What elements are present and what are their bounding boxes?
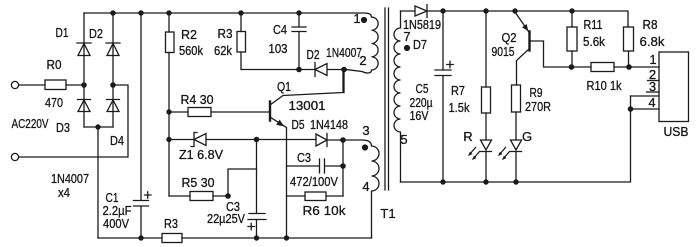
- svg-text:R3: R3: [218, 26, 233, 41]
- svg-text:R11: R11: [584, 17, 603, 32]
- resistor R4 30: [169, 108, 269, 117]
- transformer T1 secondary winding 7-5: [394, 11, 401, 182]
- wire pin1: [629, 66, 659, 68]
- svg-text:G: G: [522, 129, 532, 144]
- svg-text:R7: R7: [451, 83, 465, 98]
- resistor R11 5.6k: [567, 11, 577, 67]
- node top rail D2: [110, 10, 115, 15]
- svg-text:D2: D2: [89, 26, 103, 41]
- resistor R2 560k: [166, 13, 175, 53]
- node pin7 phase dot: [404, 45, 410, 51]
- diode D1: [77, 43, 91, 56]
- resistor R10 1k: [572, 63, 630, 72]
- node bottom rail emitter: [284, 235, 289, 240]
- diode D5 1N4148: [316, 134, 343, 147]
- wire bridge negative down: [97, 127, 99, 238]
- wire R2 column down: [168, 53, 170, 197]
- diode D3: [78, 100, 91, 112]
- node top rail C4: [296, 10, 301, 15]
- node top rail C5: [440, 8, 445, 13]
- svg-text:USB: USB: [664, 124, 689, 139]
- svg-text:D7: D7: [413, 37, 427, 52]
- resistor R3 62k: [237, 13, 299, 70]
- node top rail R3: [238, 10, 243, 15]
- svg-text:560k: 560k: [179, 43, 203, 58]
- node collector pin2 junction: [341, 67, 347, 73]
- svg-text:R9: R9: [530, 85, 543, 100]
- USB connector box: [659, 52, 689, 122]
- node Z1 anode junction: [254, 137, 260, 143]
- node rail C5 bottom: [440, 179, 445, 184]
- capacitor C5 220u 16V: [435, 11, 453, 182]
- svg-text:9015: 9015: [492, 44, 515, 59]
- svg-text:R: R: [463, 129, 472, 144]
- svg-text:6.8k: 6.8k: [640, 34, 666, 49]
- svg-text:1N4007: 1N4007: [326, 45, 362, 60]
- resistor R0: [45, 80, 66, 90]
- capacitor C3 472/100V: [287, 159, 344, 173]
- svg-text:16V: 16V: [410, 108, 429, 123]
- resistor R6 10k: [287, 192, 344, 201]
- wire D5 node down: [342, 140, 344, 196]
- svg-text:C3: C3: [297, 150, 311, 165]
- transformer T1 core: [385, 8, 389, 190]
- svg-text:1: 1: [649, 52, 656, 67]
- transistor Q1 13001: [270, 69, 343, 238]
- svg-text:C5: C5: [416, 81, 429, 96]
- svg-text:62k: 62k: [214, 43, 232, 58]
- svg-text:R3: R3: [164, 216, 178, 231]
- node rail LED R: [483, 179, 488, 184]
- node R11 R10 junction: [569, 64, 575, 70]
- svg-text:5: 5: [400, 132, 407, 147]
- node clamp C4 junction: [296, 67, 302, 73]
- wire pin3 stub: [647, 91, 660, 93]
- svg-text:R10 1k: R10 1k: [587, 78, 622, 93]
- transistor Q2 9015: [515, 12, 572, 85]
- svg-text:R2: R2: [181, 27, 197, 42]
- node D5 cathode pin3 junction: [340, 137, 346, 143]
- svg-text:13001: 13001: [289, 98, 326, 113]
- node D1 anode junction: [81, 82, 87, 88]
- wire secondary ground rail: [401, 96, 631, 182]
- wire pin4 bracket: [631, 96, 660, 109]
- resistor R9 270R: [512, 85, 521, 140]
- svg-text:x4: x4: [58, 185, 70, 200]
- svg-text:3: 3: [649, 79, 656, 94]
- resistor R8 6.8k: [624, 27, 634, 67]
- wire R5 to C3 column: [228, 169, 257, 196]
- svg-text:470: 470: [45, 95, 63, 110]
- svg-text:472/100V: 472/100V: [290, 174, 338, 189]
- wire top rail right: [443, 11, 628, 27]
- svg-text:2: 2: [359, 53, 366, 68]
- transformer T1 primary winding 1-2: [346, 17, 378, 73]
- diode D2 (bridge): [106, 43, 120, 56]
- node pin1 phase dot: [361, 17, 367, 23]
- svg-text:1N4148: 1N4148: [310, 117, 348, 132]
- svg-text:Q1: Q1: [277, 79, 291, 94]
- capacitor C4 103: [292, 13, 306, 70]
- svg-text:400V: 400V: [103, 216, 129, 231]
- capacitor C1 2.2uF 400V: [134, 13, 152, 238]
- wire AC upper to R0: [19, 84, 45, 86]
- transformer T1 feedback winding 3-4: [343, 140, 379, 238]
- wire pin2 stub: [648, 80, 660, 82]
- svg-text:103: 103: [269, 41, 288, 56]
- svg-text:R4 30: R4 30: [181, 92, 214, 107]
- svg-text:D3: D3: [56, 120, 70, 135]
- svg-text:1N5819: 1N5819: [403, 17, 441, 32]
- wire pin2 junction down to collector line: [343, 70, 345, 93]
- node pin4 ground junction: [628, 106, 634, 112]
- node D2 anode junction: [110, 82, 116, 88]
- diode D4: [107, 100, 120, 112]
- LED G: [498, 140, 521, 182]
- svg-text:R0: R0: [47, 57, 62, 72]
- node top rail R7: [483, 8, 488, 13]
- resistor R3 (bottom): [162, 234, 182, 243]
- svg-text:Z1 6.8V: Z1 6.8V: [179, 147, 223, 162]
- svg-text:R5 30: R5 30: [182, 175, 215, 190]
- terminal AC input upper: [11, 81, 18, 88]
- wire AC lower to bridge right column: [19, 85, 128, 157]
- svg-text:1: 1: [353, 11, 360, 26]
- svg-text:270R: 270R: [525, 99, 551, 114]
- svg-text:Q2: Q2: [502, 30, 517, 45]
- node top rail R2: [166, 10, 171, 15]
- svg-text:R8: R8: [643, 17, 658, 32]
- node pin3 phase dot: [362, 144, 368, 150]
- svg-text:4: 4: [362, 179, 369, 194]
- node rail LED G: [513, 179, 518, 184]
- svg-text:D2: D2: [307, 47, 320, 62]
- wire R0 to bridge: [66, 84, 84, 86]
- wire top rail left (+HV): [84, 13, 372, 17]
- wire D2 D4 column: [112, 13, 114, 127]
- node bottom rail C3: [254, 235, 259, 240]
- terminal AC input lower: [11, 153, 18, 160]
- wire Z1 node to D5: [257, 139, 317, 141]
- diode D7 1N5819: [401, 5, 444, 18]
- diode D2 1N4007 (clamp): [299, 63, 344, 77]
- node bridge negative: [95, 124, 100, 129]
- zener Z1 6.8V: [169, 133, 256, 147]
- svg-text:C4: C4: [273, 22, 287, 37]
- node bottom rail C1: [138, 235, 143, 240]
- svg-text:R6 10k: R6 10k: [303, 203, 347, 218]
- svg-text:D4: D4: [110, 133, 124, 148]
- node top rail C1: [138, 10, 143, 15]
- capacitor C3 22u25V: [248, 140, 266, 239]
- svg-text:3: 3: [362, 123, 369, 138]
- svg-text:D5: D5: [292, 117, 305, 132]
- node R4 branch: [166, 109, 171, 114]
- resistor R7 1.5k: [482, 11, 491, 140]
- svg-text:1N4007: 1N4007: [51, 171, 89, 186]
- wire bottom rail: [98, 237, 372, 239]
- svg-text:22µ25V: 22µ25V: [207, 211, 245, 226]
- node R8 R10 pin1 junction: [626, 64, 632, 70]
- node R5 right: [225, 193, 231, 199]
- svg-text:5.6k: 5.6k: [583, 34, 605, 49]
- node C3 472 right: [340, 163, 346, 169]
- resistor R5 30: [169, 192, 228, 201]
- LED R: [468, 140, 491, 182]
- node Z1 branch: [166, 137, 171, 142]
- wire bridge bottom join: [84, 126, 113, 128]
- svg-text:1.5k: 1.5k: [449, 100, 470, 115]
- svg-text:D1: D1: [56, 25, 69, 40]
- svg-text:T1: T1: [380, 206, 395, 221]
- node top rail Q2: [512, 8, 517, 13]
- node top rail R11: [569, 8, 574, 13]
- svg-text:4: 4: [648, 95, 655, 110]
- svg-text:AC220V: AC220V: [12, 116, 49, 131]
- wire D1 D3 column: [83, 13, 85, 127]
